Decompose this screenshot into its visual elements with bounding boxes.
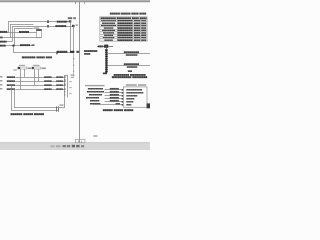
pin strip pin 2 [105, 52, 108, 54]
branch wire 5 label [110, 100, 119, 102]
wire horizontal node D [0, 44, 34, 47]
row 1 mid wire label [44, 76, 51, 78]
table row 4 circuit cell [104, 27, 114, 28]
bottom run continuation to strip [58, 106, 65, 109]
inline connector ticks bottom runs [55, 106, 58, 111]
bottom gray strip [0, 143, 150, 150]
page number footer right [94, 135, 98, 137]
table row 3 gauge cell [141, 25, 146, 27]
table row 8 circuit cell [103, 37, 115, 38]
pin strip pin 8 [105, 63, 108, 65]
branch wire 1 [105, 88, 124, 91]
connector symbol S2 side text [42, 68, 46, 70]
row 2 connector pin [64, 80, 66, 81]
strip wire upper [108, 52, 150, 55]
wire bus corner 1 [8, 20, 70, 23]
right box text row 3 [126, 95, 137, 96]
caption middle-right diagram line 2 [112, 76, 132, 78]
table row 1 wire color cell [118, 20, 133, 22]
caption lower-left diagram [11, 113, 23, 115]
pin strip pin 11 [105, 69, 108, 71]
table row 9 gauge cell [141, 39, 146, 41]
label node A left [0, 31, 7, 33]
wire bus corner 4 vertical [13, 29, 16, 46]
page background [0, 0, 150, 150]
table row 4 wire color cell [118, 27, 133, 29]
wire label lower run [57, 51, 67, 53]
table column line 1 [116, 17, 119, 41]
left block text row 3 [89, 94, 102, 96]
caption lower-right diagram [103, 109, 113, 111]
wire 3 vertical lower faint run [72, 53, 75, 78]
right box text row 2 [126, 92, 143, 93]
branch wire 3 pin tick [122, 95, 124, 96]
dark stamp block right edge [147, 103, 151, 108]
table row 2 wire color cell [118, 22, 133, 24]
right box text row 6 [126, 104, 131, 105]
branch wire 2 [105, 91, 124, 94]
row 1 connector pin [64, 76, 66, 77]
harness wire row 3 [15, 84, 64, 87]
inline connector label bottom [60, 104, 64, 106]
connector symbol S2 [32, 67, 41, 69]
wire bus corner 4 [14, 27, 34, 30]
table row 3 circuit cell [101, 25, 116, 26]
connector symbol S1 side text [28, 68, 31, 70]
return wire bottom run b [11, 109, 58, 112]
return wire drop left a [10, 85, 13, 111]
pin strip pin 7 [105, 61, 108, 63]
row 4 connector pin [64, 88, 66, 89]
left block text row 2 [87, 91, 104, 93]
branch wire 3 [105, 94, 124, 97]
caption middle-right diagram line 1 [114, 74, 129, 76]
connector id mark above caption [128, 70, 132, 72]
inline connector ticks wire 3 [46, 25, 49, 28]
pin strip pin 3 [105, 54, 108, 56]
row 1 left wire label [7, 76, 15, 78]
row 3 right wire label [56, 84, 63, 86]
right connector box [123, 87, 147, 107]
right box header [126, 84, 137, 86]
connector strip C100 intermediate pins [64, 79, 65, 80]
branch wire 4 [105, 97, 124, 100]
label node D mid [20, 44, 30, 46]
strip wire upper label below [126, 54, 138, 56]
left block header [85, 85, 105, 86]
branch wire 1 label [110, 88, 119, 90]
pin strip pin 10 [105, 67, 108, 69]
pin strip pin 9 [105, 65, 108, 67]
component label left of strip [84, 50, 97, 52]
table row 7 gridline [100, 33, 147, 36]
top window edge [0, 0, 150, 1]
fusible link ground stem [105, 48, 108, 50]
table row 9 gridline [100, 37, 147, 40]
binder mark box bottom center [75, 139, 85, 142]
label node D end mark [32, 44, 35, 46]
inline connector ticks lower run [55, 51, 58, 54]
branch wire 1 pin tick [122, 89, 124, 90]
connector symbol S1 [18, 67, 27, 69]
wire horizontal node C [0, 40, 12, 43]
connector symbol S2 label [33, 65, 40, 66]
pin strip pin 4 [105, 55, 108, 57]
wire 3 corner side text [76, 24, 78, 26]
table row 3 pin cell [134, 25, 140, 27]
row 3 left wire label [7, 84, 15, 86]
right box text row 5 [126, 101, 133, 102]
wire bus corner 2 [10, 23, 34, 26]
table row 8 gauge cell [141, 37, 146, 39]
table row 9 wire color cell [118, 39, 133, 41]
wire bus corner 1 vertical [7, 22, 10, 32]
table row 5 gauge cell [141, 30, 146, 32]
left block text row 6 [90, 103, 100, 105]
wire 1 corner pin symbol [69, 20, 72, 22]
table row 7 gauge cell [141, 35, 146, 37]
branch wire 5 [105, 100, 124, 103]
table row 8 wire color cell [118, 37, 133, 39]
table row 9 circuit cell [104, 39, 113, 40]
connector strip C100 left rail [63, 75, 66, 108]
label node D left [0, 45, 6, 47]
pin strip label [98, 45, 103, 47]
strip wire lower label below [127, 66, 137, 68]
table row 5 circuit cell [102, 30, 115, 31]
harness wire row 1 [15, 76, 64, 79]
table row 9 pin cell [134, 39, 140, 41]
drop wire S2 pin a [33, 69, 36, 85]
return wire drop left b [13, 89, 16, 108]
table row 4 gridline [100, 25, 147, 28]
row 3 mid wire label [44, 84, 51, 86]
drop wire S2 pin b [37, 69, 40, 81]
branch wire 5 pin tick [122, 101, 124, 102]
fusible link symbol below table [97, 45, 104, 48]
row 4 right wire label [56, 88, 63, 90]
connector strip C100 right rail [66, 75, 69, 98]
pin strip pin 12 [105, 71, 108, 73]
table row 7 wire color cell [118, 35, 133, 37]
strip wire lower label above [124, 63, 139, 65]
row 2 right wire label [56, 80, 63, 82]
table column line 2 [131, 17, 134, 41]
table row 2 gridline [100, 20, 147, 23]
drop wire S1 pin b [23, 69, 26, 77]
wire lower horizontal run [14, 51, 74, 54]
table row 6 wire color cell [118, 32, 133, 34]
table column line 3 [139, 17, 142, 41]
label node C left [0, 41, 7, 43]
row 1 left pin text [0, 76, 2, 77]
table row 1 pin cell [134, 20, 140, 22]
table row 6 gridline [100, 30, 147, 33]
table header row [101, 17, 116, 19]
wire horizontal node A [0, 31, 37, 34]
row 2 left pin text [0, 80, 2, 81]
pin strip pin 1 [105, 50, 108, 52]
table row 4 pin cell [134, 27, 140, 29]
table row 3 gridline [100, 23, 147, 26]
strip wire upper label above [124, 51, 139, 53]
pin strip bottom tag [103, 73, 107, 75]
page column divider [78, 2, 81, 143]
inline connector ticks wire 1 [46, 20, 49, 23]
table row 6 pin cell [134, 32, 140, 34]
table row 6 circuit cell [103, 32, 114, 33]
right box text row 1 [126, 89, 142, 90]
branch wire 2 label [110, 91, 119, 93]
wire bus corner 3 [12, 25, 74, 28]
branch wire 4 label [110, 97, 119, 99]
table row 6 gauge cell [141, 32, 146, 34]
stray pin mark left of symbol S1 [13, 69, 16, 71]
fusible link ground tick [105, 48, 108, 51]
harness wire row 4 [15, 88, 64, 91]
table row 8 gridline [100, 35, 147, 38]
row 4 mid wire label [44, 88, 51, 90]
return wire bottom run a [14, 106, 58, 109]
row 4 left wire label [7, 88, 15, 90]
table row 5 gridline [100, 28, 147, 31]
wire bus corner 2 vertical [9, 24, 12, 38]
table row 3 wire color cell [118, 25, 133, 27]
branch wire 3 label [110, 94, 119, 96]
wire label on wire 1 [57, 21, 68, 23]
table row 2 circuit cell [102, 23, 115, 24]
table row 1 gridline [100, 18, 147, 21]
pin strip spine [105, 48, 108, 74]
wire horizontal node B [0, 36, 42, 39]
component K1 box [37, 30, 42, 38]
wire label on wire 3 [55, 25, 66, 27]
bottom strip text fragment [51, 145, 55, 147]
connector symbol S1 label [19, 65, 25, 66]
wire 3 corner pin symbol [72, 25, 75, 27]
component K1 top bar [36, 29, 41, 31]
left block text row 5 [90, 100, 99, 102]
pin strip pin 5 [105, 57, 108, 59]
top margin tick left [74, 2, 77, 4]
left block text row 4 [86, 97, 99, 99]
table row 5 pin cell [134, 30, 140, 32]
connector strip C100 pin number text [69, 81, 71, 82]
pin label right of junction [76, 51, 79, 53]
branch wire 6 id label [116, 103, 121, 105]
table row 7 pin cell [134, 35, 140, 37]
connector pin text top right [68, 17, 72, 19]
table row 1 circuit cell [101, 20, 116, 21]
row 2 mid wire label [44, 80, 51, 82]
bottom page edge line [0, 141, 150, 144]
table row 7 circuit cell [104, 35, 113, 36]
table row 8 pin cell [134, 37, 140, 39]
junction dot node D [12, 44, 14, 46]
connector pinout table frame [100, 17, 147, 41]
connector strip C100 side text [71, 74, 75, 75]
branch wire 2 pin tick [122, 92, 124, 93]
junction block right [70, 51, 74, 53]
row 4 left pin text [0, 88, 2, 89]
row 3 left pin text [0, 84, 2, 85]
table row 4 gauge cell [141, 27, 146, 29]
table row 2 pin cell [134, 22, 140, 24]
wire node D drop vertical [12, 46, 15, 53]
strip wire lower [108, 64, 150, 67]
drop wire S1 pin a [19, 69, 22, 89]
row 1 right wire label [56, 76, 63, 78]
table row 2 gauge cell [141, 22, 146, 24]
connector strip C100 top tie [65, 74, 68, 77]
wire 1 right corner vertical [69, 22, 72, 53]
right box text row 4 [126, 98, 134, 99]
top margin tick right [83, 2, 86, 4]
label node A mid [19, 31, 29, 33]
pin strip pin 6 [105, 59, 108, 61]
table title [110, 13, 121, 15]
wire 3 right corner vertical [72, 26, 75, 53]
row 3 connector pin [64, 84, 66, 85]
table row 1 gauge cell [141, 20, 146, 22]
branch wire 6 [93, 103, 123, 106]
branch wire 6 pin tick [122, 104, 124, 105]
label node B left [0, 37, 3, 39]
component K1 label [34, 27, 39, 28]
caption upper-left diagram [22, 56, 36, 58]
wire bus corner 3 vertical [11, 26, 14, 41]
left block text row 1 [88, 88, 103, 90]
table row 5 wire color cell [118, 30, 133, 32]
harness wire row 2 [15, 80, 64, 83]
branch wire 4 pin tick [122, 98, 124, 99]
row 2 left wire label [7, 80, 15, 82]
